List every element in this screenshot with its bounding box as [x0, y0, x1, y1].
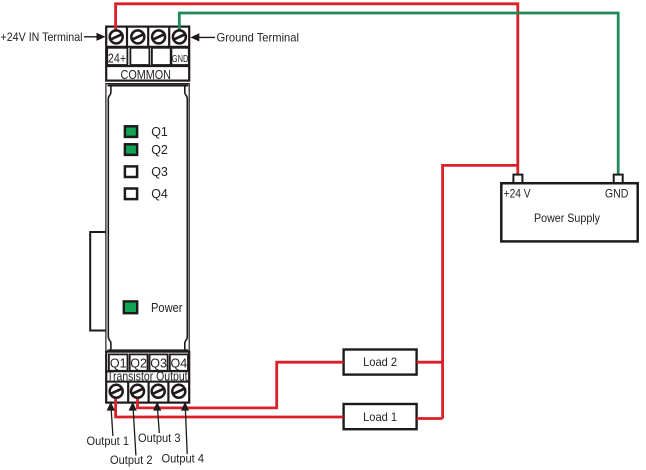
terminal cell 2 (blank) [130, 48, 149, 65]
svg-text:+24V IN Terminal: +24V IN Terminal [1, 30, 83, 44]
screw terminal top 3 [152, 30, 165, 43]
wire red: branch to Load 1 right terminal [417, 417, 443, 420]
annotation Output 3 [138, 402, 181, 445]
terminal GND label cell [171, 48, 188, 65]
svg-text:Q4: Q4 [151, 187, 168, 201]
svg-text:Power: Power [151, 301, 183, 315]
terminal block bottom (transistor output) [106, 352, 189, 403]
svg-text:Q3: Q3 [150, 356, 167, 370]
svg-text:COMMON: COMMON [121, 67, 172, 82]
load LOAD2 box [344, 350, 417, 375]
power supply box top edge redraw [501, 182, 637, 185]
screw terminal Q2 (bottom 2) [131, 385, 144, 398]
svg-text:Ground Terminal: Ground Terminal [217, 31, 300, 45]
screw terminal 24+ (top 1) [110, 30, 123, 43]
svg-text:Load 1: Load 1 [363, 410, 397, 424]
svg-text:Q4: Q4 [171, 356, 188, 370]
annotation Output 4 [162, 402, 205, 466]
wire red: branch to Load 2 right terminal [417, 361, 443, 364]
power supply +24V terminal stub [513, 175, 522, 184]
svg-text:Output 3: Output 3 [138, 431, 181, 445]
screw terminal GND (top 4) [173, 30, 186, 43]
annotation Output 1 [87, 402, 130, 448]
DIN rail clip [90, 232, 106, 331]
annotation Output 2 [110, 402, 153, 467]
power supply GND terminal stub [614, 175, 623, 184]
power supply PS1 box [501, 183, 637, 241]
pin Q3 label cell [150, 354, 168, 370]
svg-text:Q1: Q1 [151, 125, 168, 139]
svg-text:24+: 24+ [108, 50, 126, 65]
pin Q2 label cell [130, 354, 148, 370]
svg-text:Load 2: Load 2 [363, 355, 397, 369]
svg-text:+24 V: +24 V [504, 187, 531, 201]
svg-text:GND: GND [172, 53, 189, 65]
LED Q4 (off) [125, 189, 137, 200]
LED Q1 (on, green) [125, 126, 137, 137]
module U1 face panel [108, 85, 189, 350]
svg-text:Q2: Q2 [130, 356, 147, 370]
svg-text:Output 2: Output 2 [110, 453, 153, 467]
terminal block top (24+ / COMMON / GND) [106, 27, 189, 81]
wire red: output Q1 to Load 1 left terminal [116, 394, 344, 417]
load LOAD1 box [344, 404, 417, 429]
terminal cell 3 (blank) [152, 48, 171, 65]
svg-text:GND: GND [605, 187, 629, 201]
svg-text:Transistor Output: Transistor Output [107, 370, 188, 384]
wire green: module GND terminal to power supply GND [179, 13, 618, 176]
wire red: module 24+ terminal to power supply +24V [116, 4, 518, 176]
annotation +24V IN Terminal [1, 30, 106, 44]
pin Q4 label cell [170, 354, 188, 370]
wire red: output Q2 to Load 2 left terminal [138, 362, 344, 408]
LED Q3 (off) [125, 166, 137, 177]
screw terminal Q1 (bottom 1) [110, 385, 123, 398]
svg-text:Output 1: Output 1 [87, 434, 130, 448]
svg-text:Power Supply: Power Supply [534, 211, 600, 225]
svg-text:Output 4: Output 4 [162, 452, 205, 466]
pin Q1 label cell [109, 354, 128, 370]
LED Power (on, green) [124, 301, 137, 313]
svg-text:Q3: Q3 [151, 165, 168, 179]
screw terminal Q4 (bottom 4) [172, 385, 185, 398]
annotation Ground Terminal [190, 31, 299, 45]
module U1 body outer [106, 84, 189, 352]
svg-text:Q2: Q2 [151, 143, 168, 157]
screw terminal top 2 [131, 30, 144, 43]
svg-text:Q1: Q1 [110, 356, 127, 370]
wire red: +24V branch down to loads [443, 165, 518, 418]
LED Q2 (on, green) [125, 144, 137, 155]
terminal 24+ label cell [107, 48, 127, 66]
screw terminal Q3 (bottom 3) [152, 385, 165, 398]
